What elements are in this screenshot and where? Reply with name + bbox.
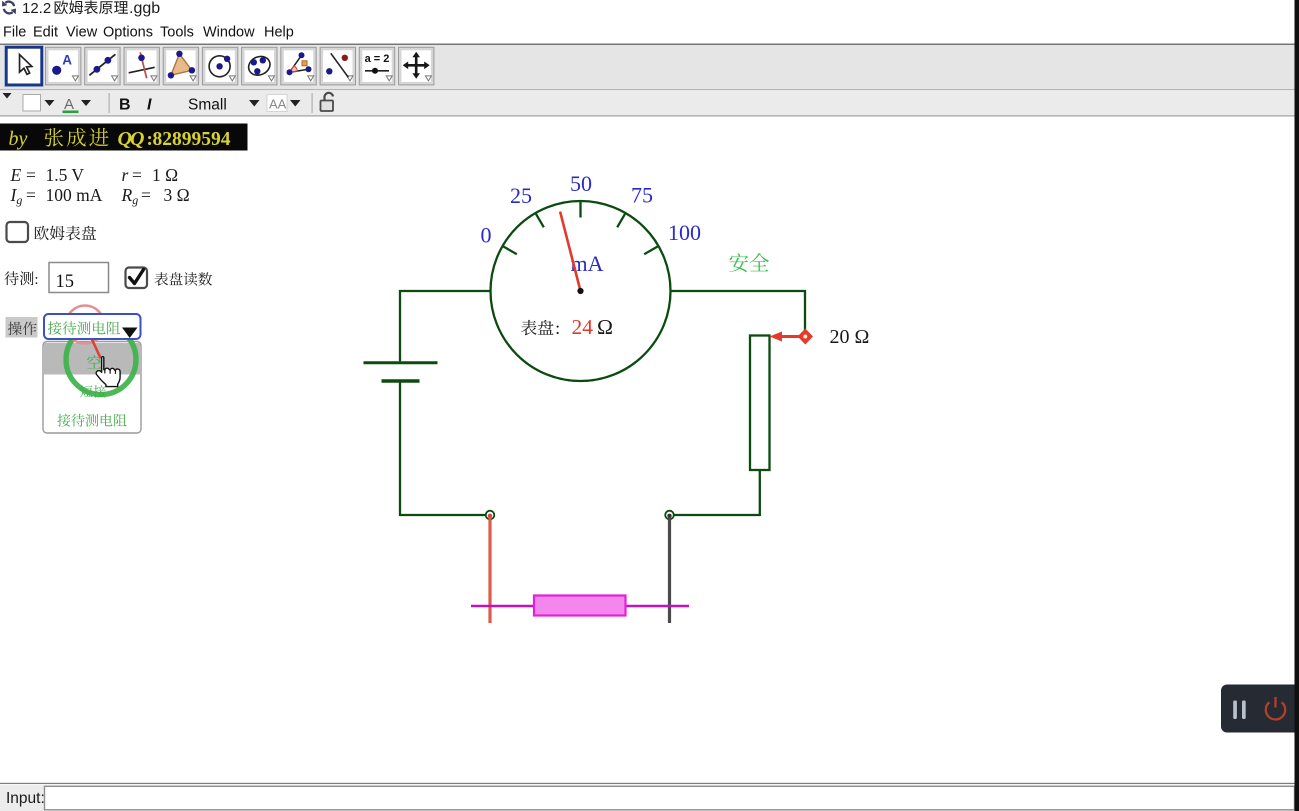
black probe lead bbox=[668, 517, 671, 623]
label daice bbox=[5, 271, 19, 285]
svg-text:A: A bbox=[64, 96, 74, 113]
svg-text:50: 50 bbox=[570, 171, 592, 196]
playback control panel bbox=[1221, 685, 1299, 733]
svg-text:.ggb: .ggb bbox=[129, 0, 160, 17]
svg-text:Tools: Tools bbox=[160, 25, 194, 41]
list item kong bbox=[87, 355, 101, 369]
wire meter-left to battery bbox=[400, 291, 491, 361]
svg-text:Small: Small bbox=[188, 97, 227, 114]
bottom input bar bbox=[0, 783, 1299, 784]
svg-text:a = 2: a = 2 bbox=[365, 53, 390, 65]
list item duanjie bbox=[80, 385, 93, 397]
svg-text:0: 0 bbox=[481, 223, 492, 248]
svg-text:View: View bbox=[66, 25, 98, 41]
battery cell E=1.5V r=1ohm : long plate (+) bbox=[364, 361, 438, 364]
wire battery to left node bbox=[400, 383, 487, 516]
svg-text:QQ: QQ bbox=[118, 128, 145, 150]
svg-text:Help: Help bbox=[264, 25, 294, 41]
svg-text:Ω: Ω bbox=[597, 315, 613, 339]
wiper diamond point bbox=[798, 329, 813, 345]
selection ring green bbox=[66, 325, 136, 395]
svg-text:A: A bbox=[62, 52, 72, 67]
right dark edge strip bbox=[1295, 0, 1299, 811]
battery cell: short plate (-) bbox=[382, 379, 420, 382]
list item jiedaiceidianzu bbox=[57, 414, 70, 427]
needle bbox=[560, 212, 580, 291]
svg-text:82899594: 82899594 bbox=[153, 129, 231, 150]
svg-text:25: 25 bbox=[510, 183, 532, 208]
svg-text::: : bbox=[555, 318, 560, 338]
svg-text:Edit: Edit bbox=[33, 25, 58, 41]
right probe node bbox=[665, 511, 674, 520]
checkbox dial-reading checked bbox=[126, 268, 148, 289]
checkbox ohm-dial unchecked bbox=[7, 222, 29, 242]
svg-text:100: 100 bbox=[668, 220, 701, 245]
wire rheostat to right node bbox=[673, 470, 760, 515]
wiper red arrow bbox=[779, 335, 799, 338]
red probe lead bbox=[488, 517, 491, 623]
meter tick marks bbox=[503, 202, 657, 254]
left probe node bbox=[486, 511, 495, 520]
svg-text:20 Ω: 20 Ω bbox=[830, 326, 870, 348]
knob circle (pink) bbox=[66, 306, 104, 344]
svg-text:24: 24 bbox=[572, 315, 594, 339]
svg-text:Rg= 3 Ω: Rg= 3 Ω bbox=[121, 185, 190, 207]
author banner bbox=[0, 124, 248, 151]
wire meter-right to rheostat wiper bbox=[670, 291, 805, 331]
unknown resistor Rx body bbox=[534, 596, 626, 616]
anquan safe label bbox=[729, 253, 748, 272]
svg-text:AA: AA bbox=[269, 97, 287, 112]
combo button bbox=[44, 314, 141, 339]
dropdown list popup bbox=[43, 342, 141, 434]
galvanometer meter circle bbox=[491, 201, 671, 381]
svg-text:by: by bbox=[9, 128, 28, 150]
svg-text:E = 1.5 V: E = 1.5 V bbox=[10, 165, 85, 185]
svg-text:Input:: Input: bbox=[6, 790, 45, 807]
svg-text:12.2: 12.2 bbox=[22, 0, 51, 17]
input box 15 bbox=[49, 263, 109, 293]
needle pivot bbox=[577, 288, 583, 294]
svg-text:Window: Window bbox=[203, 25, 255, 41]
svg-text:B: B bbox=[119, 97, 131, 114]
svg-text:I: I bbox=[147, 97, 152, 114]
rheostat body R 20ohm bbox=[750, 336, 770, 471]
knob needle red bbox=[89, 333, 101, 358]
caozuo label bbox=[6, 317, 38, 338]
dial reading text bbox=[521, 320, 537, 336]
svg-text:75: 75 bbox=[631, 183, 653, 208]
unknown resistor Rx left lead bbox=[471, 605, 534, 607]
svg-text:Options: Options bbox=[103, 25, 153, 41]
svg-text:File: File bbox=[3, 25, 26, 41]
svg-text::: : bbox=[34, 272, 38, 288]
mouse hand cursor bbox=[96, 357, 120, 387]
unknown resistor Rx right lead bbox=[626, 605, 690, 607]
svg-text:15: 15 bbox=[56, 272, 75, 292]
